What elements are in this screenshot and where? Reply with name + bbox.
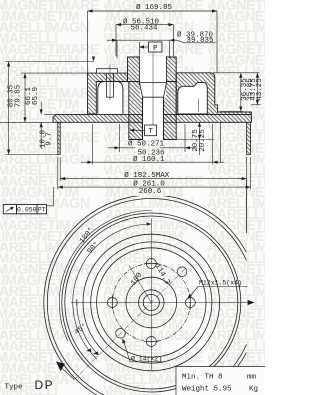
dimension 80.35/79.85 line: [8, 62, 10, 155]
dimension Ø39.870 leader underline: [177, 40, 216, 43]
label Ø14 leader: [124, 341, 131, 362]
angular dimension arc 180: [59, 211, 151, 342]
bolt hole W: [107, 298, 117, 308]
svg-text:DP: DP: [35, 378, 55, 392]
bolt hole N: [146, 259, 156, 269]
dimension 36.35/35.85 line: [240, 73, 242, 112]
extension line boss top level to left margin: [5, 61, 94, 63]
right stud hole centerline tick: [197, 99, 199, 112]
svg-text:Kg: Kg: [249, 386, 258, 394]
arrowheads 43.75: [256, 73, 259, 78]
label Ø14 underline: [130, 361, 164, 363]
svg-text:20.7520.25: 20.7520.25: [192, 129, 207, 152]
center bore circle: [139, 290, 164, 315]
label Ø14 leader arrowhead: [122, 338, 125, 343]
dimension 10.0/9.7 line upper: [40, 102, 42, 115]
dimension Ø182.5MAX dim line: [60, 178, 246, 180]
svg-text:56.434: 56.434: [130, 24, 158, 32]
datum P box leader: [140, 46, 149, 48]
dimension Ø56.510 dim line: [116, 24, 174, 26]
dimension Ø50.271 extension lines: [119, 124, 121, 152]
svg-text:66.165.9: 66.165.9: [25, 87, 40, 106]
angular dimension arc 90: [73, 224, 152, 359]
extension line rim top to right margin: [213, 72, 260, 74]
dimension 66.1/65.9 line: [24, 73, 26, 122]
dimension Ø261.0 dim line: [58, 186, 251, 188]
hub flange circle: [126, 277, 177, 328]
tolerance frame: [3, 205, 46, 214]
dimension 43.75/43.25 line: [256, 73, 258, 105]
dimension Ø169.85 dim line: [88, 10, 218, 12]
arrowheads Ø182.5MAX: [60, 177, 65, 180]
svg-text:80.3579.85: 80.3579.85: [8, 84, 23, 107]
right nut-seat dome (white revolved feature): [178, 83, 208, 114]
dimension 20.75/20.25 line: [199, 122, 201, 155]
arrowheads Ø56.510: [116, 23, 121, 26]
svg-text:43.7543.25: 43.7543.25: [250, 78, 264, 101]
arrowheads 36.35: [239, 73, 242, 78]
extension line skirt bottom to left margin: [5, 154, 58, 156]
extension line disc bottom to left margin: [0, 121, 53, 123]
extension line for 43.75 bottom: [251, 104, 261, 106]
svg-text:Ø 160.1: Ø 160.1: [133, 155, 165, 164]
angular dimension arc 45: [77, 303, 99, 356]
bolt hole E: [185, 298, 195, 308]
arrowheads 66.1: [23, 73, 26, 78]
datum P extension line: [139, 42, 141, 57]
locating hole NE: [177, 267, 187, 277]
label M12 leader arrowhead: [188, 294, 192, 299]
datum T leader: [134, 129, 145, 131]
datum T box: [145, 125, 157, 136]
dimension Ø169.85 right extension line: [216, 11, 218, 73]
svg-text:mm: mm: [247, 374, 257, 382]
svg-text:Ø 50.271: Ø 50.271: [128, 140, 165, 149]
right drum skirt: [247, 122, 251, 154]
arrowheads Ø160.1 (outside): [88, 161, 93, 164]
dimension Ø160.1 dim line: [81, 161, 224, 163]
dimension Ø182.5MAX extension lines: [59, 157, 61, 181]
svg-text:Min. TH 8: Min. TH 8: [182, 374, 223, 382]
left drum skirt: [58, 122, 60, 154]
arrowhead at boss-top extension end: [92, 57, 95, 62]
horizontal centerline of front view: [71, 302, 251, 304]
right flange + rim (hatched): [176, 73, 251, 115]
extension line tube bottom right: [176, 139, 214, 141]
radial line for 100: [129, 266, 151, 303]
datum T leader arrowhead: [129, 129, 134, 132]
horizontal centerline right arrowhead: [248, 300, 255, 305]
small arc arrowheads at SW radial: [86, 348, 92, 351]
svg-text:Ø 182.5MAX: Ø 182.5MAX: [124, 171, 170, 180]
arrowheads 10.0/9.7: [40, 109, 43, 114]
svg-text:39.835: 39.835: [186, 37, 214, 45]
stud hole inside dome: [107, 69, 114, 98]
hat flange circle: [83, 234, 220, 371]
dimension 10.0/9.7 line lower: [40, 122, 42, 149]
label M12 leader: [189, 287, 199, 299]
dimension Ø160.1 extension lines: [92, 124, 94, 165]
svg-text:M12x1.5(x4): M12x1.5(x4): [199, 280, 242, 287]
dimension Ø39.870 extension lines: [116, 40, 118, 58]
disc outer circle pair: [44, 195, 259, 395]
label M12 underline: [198, 286, 248, 288]
svg-text:T: T: [148, 128, 153, 136]
left stud-hole dome (white revolved feature): [98, 82, 123, 114]
diagonal dash-dot centerline NE-SW: [74, 269, 186, 381]
svg-text:Ø 169.85: Ø 169.85: [136, 3, 173, 12]
center tube below flange (hatched): [129, 82, 176, 140]
arrowheads Ø169.85: [88, 9, 93, 12]
arrowheads 20.75: [198, 122, 201, 127]
friction band (hatched): [53, 114, 252, 122]
bolt circle (dash-dot): [112, 264, 190, 342]
datum P box: [149, 42, 162, 52]
arrowheads Ø261.0: [58, 186, 63, 189]
right border line: [245, 180, 247, 233]
extension line ledge to right: [221, 111, 244, 113]
line from big arrowhead to SW radial end: [60, 367, 74, 380]
arc arrowhead tick at W radial: [76, 299, 78, 305]
center boss (hatched): [128, 57, 177, 82]
arc arrowhead at N radial: [146, 222, 151, 225]
svg-text:Ø 14(x2): Ø 14(x2): [131, 354, 162, 362]
tolerance frame leader: [47, 187, 54, 206]
extension line disc top left: [44, 113, 56, 115]
bore walls: [129, 57, 176, 140]
svg-text:P: P: [153, 45, 158, 53]
arrowheads 80.35: [7, 62, 10, 67]
svg-text:260.6: 260.6: [139, 188, 162, 196]
svg-text:0.050: 0.050: [17, 207, 37, 214]
bore (white): [140, 56, 166, 97]
center bore chamfer circle: [143, 294, 159, 310]
dimension Ø56.510 extension lines: [115, 25, 117, 56]
svg-text:Weight 5.95: Weight 5.95: [182, 386, 232, 394]
extension line ledge edge down: [219, 123, 221, 164]
tolerance runout symbol: [6, 207, 14, 212]
locating hole SW: [116, 329, 126, 339]
svg-text:PT: PT: [38, 207, 46, 214]
dimension Ø50.271 dim line with outside arrows: [108, 147, 135, 149]
bolt hole S: [146, 337, 156, 347]
arrowheads Ø39.870 (outside): [112, 39, 117, 42]
dimension Ø261.0 extension lines: [57, 157, 59, 190]
dimension Ø39.870 dim line with outside arrows: [107, 39, 177, 41]
table border: [176, 367, 265, 395]
stud hole centerline tick: [109, 65, 111, 101]
stud hole collar on flange top: [97, 69, 118, 73]
extension line flange top to left margin: [21, 72, 88, 74]
svg-text:10.09.7: 10.09.7: [40, 130, 54, 149]
left hat wall + flange (hatched): [88, 73, 128, 114]
arrowhead datum P leader: [139, 45, 144, 48]
arrowheads Ø50.271 (outside): [115, 146, 120, 149]
drum circle pair: [62, 213, 241, 392]
big arrowhead SW: [56, 362, 65, 372]
vertical centerline of front view: [150, 219, 152, 371]
svg-text:Type: Type: [5, 384, 23, 392]
dimension Ø169.85 left extension line: [87, 11, 89, 73]
hat circles: [91, 242, 212, 363]
